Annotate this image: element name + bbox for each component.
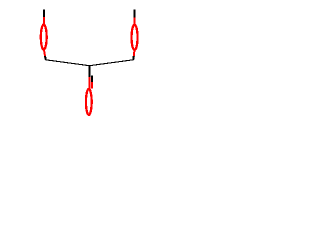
wire: C=O double bond second line, red lower half (toward O)	[91, 82, 93, 89]
node O (right ester oxygen label)	[132, 25, 138, 50]
wire: C=O double bond main line, black upper half	[88, 66, 90, 77]
wire: right O-CH2 bond, red upper half (from O)	[133, 51, 136, 56]
wire: left O-CH2 bond, red upper half (from O)	[43, 50, 46, 56]
wire: right CH3-O bond, red lower half (toward O)	[134, 17, 136, 24]
wire: C=O double bond second line, black upper half	[91, 76, 93, 82]
wire: right CH2-C bond (V arm to carbonyl carbon)	[89, 60, 133, 66]
node O (carbonyl oxygen label, bottom)	[86, 89, 92, 115]
wire: right CH3-O bond, black upper half	[134, 9, 136, 17]
wire: left CH2-C bond (V arm to carbonyl carbon)	[46, 60, 90, 66]
wire: left CH3-O bond, red lower half (toward O)	[43, 17, 45, 24]
wire: right O-CH2 bond, black lower half	[132, 56, 135, 60]
wire: left CH3-O bond, black upper half	[43, 9, 45, 17]
wire: left O-CH2 bond, black lower half	[44, 56, 47, 60]
node O (left ester oxygen label)	[41, 25, 47, 50]
chemical structure: 1,3-dimethoxypropan-2-one style skeletal drawing	[0, 0, 180, 138]
wire: C=O double bond main line, red lower half (toward O)	[88, 77, 90, 89]
